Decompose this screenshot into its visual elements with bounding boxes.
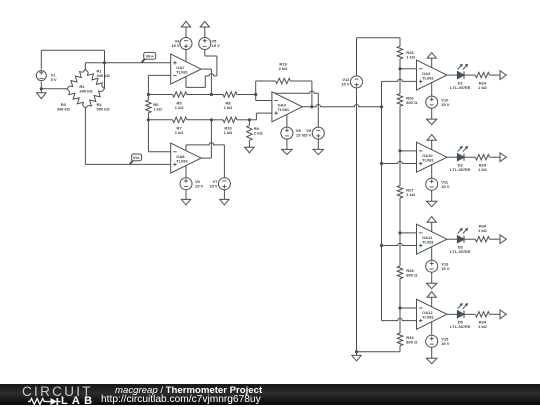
- node bus row3: [380, 244, 383, 247]
- wire bridge top stub: [84, 63, 86, 70]
- svg-text:1 kΩ: 1 kΩ: [224, 130, 234, 135]
- ground below V9: [317, 139, 319, 149]
- svg-text:1 kΩ: 1 kΩ: [478, 228, 488, 233]
- svg-text:800 Ω: 800 Ω: [406, 100, 418, 105]
- wire V12 bottom rail: [356, 88, 358, 352]
- ground below V15: [431, 347, 433, 358]
- svg-text:1 kΩ: 1 kΩ: [153, 106, 163, 111]
- resistor R3 340k bridge bottom-left arm: [67, 89, 70, 92]
- ground below R9: [245, 147, 254, 153]
- svg-text:2 kΩ: 2 kΩ: [254, 131, 264, 136]
- voltage source V12 15V: [351, 76, 363, 88]
- ground at bottom rail: [356, 352, 358, 356]
- resistor R1 340k bridge top-right arm: [85, 69, 88, 72]
- voltage source V6 15V: [180, 178, 192, 190]
- svg-text:2 kΩ: 2 kΩ: [279, 66, 289, 71]
- LED D5 LTL-307EE: [457, 311, 464, 318]
- node output to + bus: [380, 105, 383, 108]
- resistor R10 1k: [211, 119, 223, 121]
- svg-text:15 V: 15 V: [171, 43, 180, 48]
- wire V13 to OA11 pin: [431, 247, 433, 261]
- wire LED to R29: [464, 156, 475, 158]
- power arrow above V5: [200, 21, 209, 27]
- wire OA7 output down to R5/R8 row: [201, 68, 211, 70]
- svg-text:800 Ω: 800 Ω: [406, 339, 418, 344]
- svg-text:15 V: 15 V: [441, 184, 450, 189]
- resistor R2 340k bridge top-left arm: [67, 86, 70, 89]
- wire Vin+ to OA7 noninverting input: [105, 62, 171, 64]
- svg-text:800 Ω: 800 Ω: [406, 272, 418, 277]
- svg-text:15 V: 15 V: [212, 43, 221, 48]
- svg-text:1 kΩ: 1 kΩ: [406, 192, 416, 197]
- power arrow above OA11: [427, 217, 436, 223]
- wire OA9 output to bus: [302, 105, 381, 107]
- node bottom rail junction: [355, 350, 358, 353]
- op-amp OA9 TL081: [272, 92, 302, 122]
- wire ladder tap to OA12 - input: [400, 307, 417, 309]
- power arrow above V4: [181, 21, 190, 27]
- wire OA10 output to LED: [447, 156, 458, 158]
- ground below V8: [286, 139, 288, 149]
- svg-text:5 V: 5 V: [51, 77, 57, 82]
- svg-text:TL081: TL081: [422, 75, 434, 80]
- resistor R34 1k: [475, 312, 489, 317]
- ground below V10: [431, 108, 433, 119]
- svg-text:LTL-307EE: LTL-307EE: [450, 249, 471, 254]
- wire V6 to OA8 pin: [185, 166, 187, 178]
- voltage source V9 15V: [312, 127, 324, 139]
- voltage source V15 15V: [426, 335, 438, 347]
- voltage source V5 15V: [199, 38, 211, 50]
- svg-text:1 kΩ: 1 kΩ: [175, 105, 185, 110]
- op-amp OA10 TL081: [417, 142, 447, 172]
- node OA7 output junction: [210, 93, 213, 96]
- wire ladder tap to OA10 - input: [400, 150, 417, 152]
- node R19/output junction: [310, 105, 313, 108]
- resistor R7 1k: [148, 119, 172, 121]
- svg-text:15 V: 15 V: [441, 341, 450, 346]
- node ladder tap 1: [398, 67, 401, 70]
- wire OA3 output to LED: [447, 74, 458, 76]
- svg-text:15 V: 15 V: [303, 133, 312, 138]
- voltage source V10 15V: [426, 96, 438, 108]
- wire bridge bottom to OA8 noninverting input: [84, 108, 86, 164]
- ground below V6: [185, 190, 187, 200]
- wire V10 to OA3 pin: [431, 83, 433, 97]
- svg-text:340 kΩ: 340 kΩ: [97, 73, 111, 78]
- wire ladder tap to OA11 - input: [400, 232, 417, 234]
- node OA8 output junction: [210, 118, 213, 121]
- op-amp OA12 TL081: [417, 299, 447, 329]
- LED D2 LTL-307EE: [457, 154, 464, 161]
- svg-text:LTL-307EE: LTL-307EE: [450, 324, 471, 329]
- svg-text:1 kΩ: 1 kΩ: [478, 85, 488, 90]
- wire V1+ top to bridge right node: [40, 50, 42, 69]
- node ladder tap 4: [398, 306, 401, 309]
- svg-text:TL081: TL081: [422, 239, 434, 244]
- wire V9 to OA9 top pin: [317, 93, 319, 127]
- voltage source V4 15V: [180, 38, 192, 50]
- node R6 bottom junction: [147, 118, 150, 121]
- wire to OA8 inverting input: [147, 120, 149, 152]
- voltage source V11 15V: [426, 178, 438, 190]
- wire V11 to OA10 pin: [431, 165, 433, 179]
- svg-text:TL081: TL081: [176, 158, 188, 163]
- wire LED to R34: [464, 313, 475, 315]
- net flag row OA3: [500, 71, 506, 80]
- svg-text:340 kΩ: 340 kΩ: [57, 107, 71, 112]
- svg-text:15 V: 15 V: [195, 183, 204, 188]
- net flag Vin+: [144, 52, 156, 59]
- resistor R6 1k vertical: [147, 95, 149, 100]
- wire bus to OA11 + input: [382, 243, 417, 245]
- svg-text:15 V: 15 V: [441, 102, 450, 107]
- svg-text:1 kΩ: 1 kΩ: [224, 105, 234, 110]
- svg-text:1 kΩ: 1 kΩ: [478, 324, 488, 329]
- resistor R29 1k: [475, 155, 489, 160]
- svg-text:1 kΩ: 1 kΩ: [175, 130, 185, 135]
- wire V1- to bridge left node: [40, 82, 42, 89]
- svg-text:15 V: 15 V: [209, 183, 218, 188]
- svg-text:1 kΩ: 1 kΩ: [478, 167, 488, 172]
- svg-text:1 kΩ: 1 kΩ: [406, 55, 416, 60]
- wire bridge right node vertical: [104, 63, 106, 89]
- wire LED to R24: [464, 74, 475, 76]
- wire to OA9 noninverting input: [249, 119, 256, 121]
- resistor R24 1k: [475, 72, 489, 77]
- ground below V13: [431, 272, 433, 283]
- net flag Vin-: [132, 154, 142, 161]
- net flag row OA12: [500, 310, 506, 319]
- node V1- junction: [40, 87, 43, 90]
- svg-text:15 V: 15 V: [441, 266, 450, 271]
- power arrow above OA3: [427, 53, 436, 59]
- wire V12 top to ladder top: [356, 38, 358, 76]
- resistor R26 800 ladder: [399, 69, 401, 94]
- power arrow above OA12: [427, 292, 436, 298]
- power arrow above OA10: [427, 135, 436, 141]
- node bus row2: [380, 162, 383, 165]
- svg-text:TL081: TL081: [422, 157, 434, 162]
- node R8/R19 junction: [254, 93, 257, 96]
- wire OA8 output up to R7/R10 row: [201, 157, 211, 159]
- voltage source V8 15V: [281, 127, 293, 139]
- wire to OA9 inverting input: [255, 95, 257, 101]
- resistor R33 800 ladder: [399, 308, 401, 333]
- wire V5 to OA7 V- pin staircase: [204, 50, 206, 57]
- svg-text:340 kΩ: 340 kΩ: [79, 89, 93, 94]
- resistor R27 1k ladder: [399, 151, 401, 186]
- svg-text:TL081: TL081: [278, 107, 290, 112]
- ground below V7: [223, 190, 225, 200]
- LED D3 LTL-307EE: [457, 236, 464, 243]
- svg-text:TL081: TL081: [176, 69, 188, 74]
- wire R34 to flag: [490, 313, 501, 315]
- LED D1 LTL-307EE: [457, 72, 464, 79]
- wire bus to OA3 + input: [382, 79, 417, 81]
- wire ladder tap to OA3 - input: [400, 68, 417, 70]
- voltage source V1 5V: [36, 71, 46, 81]
- resistor R9 2k to ground: [248, 120, 250, 126]
- svg-text:TL081: TL081: [422, 315, 434, 320]
- wire bus to OA10 + input: [382, 161, 417, 163]
- wire measurement bus vertical: [381, 81, 383, 320]
- resistor R19 2k feedback: [255, 81, 257, 95]
- resistor R8 1k: [211, 94, 223, 96]
- wire bus to OA12 + input: [382, 318, 417, 320]
- wire OA11 output to LED: [447, 238, 458, 240]
- wire LED to R30: [464, 238, 475, 240]
- wire OA12 output to LED: [447, 313, 458, 315]
- node ladder tap 2: [398, 149, 401, 152]
- svg-text:LTL-307EE: LTL-307EE: [450, 167, 471, 172]
- wire R30 to flag: [490, 238, 501, 240]
- wire ladder bottom to rail: [399, 346, 401, 352]
- ground below V11: [431, 190, 433, 201]
- node R10/R9 junction: [248, 118, 251, 121]
- footer text: [115, 386, 262, 395]
- resistor R4 500k bridge bottom-right arm: [85, 105, 88, 108]
- node junction Vin+ net: [103, 61, 106, 64]
- op-amp OA11 TL081: [417, 224, 447, 254]
- net flag row OA10: [500, 153, 506, 162]
- wire OA7 inverting input feedback: [148, 74, 170, 76]
- wire V15 to OA12 pin: [431, 322, 433, 336]
- ground below V1: [40, 89, 42, 93]
- svg-text:LTL-307EE: LTL-307EE: [450, 85, 471, 90]
- svg-text:Vin+: Vin+: [145, 53, 154, 58]
- resistor R30 1k: [475, 237, 489, 242]
- resistor R25 1k ladder: [397, 46, 402, 59]
- svg-text:Vin-: Vin-: [133, 155, 141, 160]
- op-amp OA7 TL081: [171, 54, 201, 84]
- wire V4 to OA7 V+ pin: [185, 50, 187, 62]
- node R6 top junction: [147, 93, 150, 96]
- CircuitLab logo: [0, 384, 100, 405]
- wire V7 to OA8 top pin: [223, 145, 225, 178]
- voltage source V13 15V: [426, 260, 438, 272]
- wire R19 right leg to OA9 output: [311, 81, 313, 107]
- voltage source V7 15V: [218, 178, 230, 190]
- node ladder tap 3: [398, 231, 401, 234]
- wire V8 to OA9 pin: [286, 114, 288, 127]
- svg-text:15 V: 15 V: [341, 82, 350, 87]
- svg-text:500 kΩ: 500 kΩ: [97, 107, 111, 112]
- op-amp OA3 TL081: [417, 60, 447, 90]
- op-amp OA8 TL081: [171, 143, 201, 173]
- net flag row OA11: [500, 235, 506, 244]
- resistor R5 1k: [148, 94, 172, 96]
- resistor R28 800 ladder: [399, 233, 401, 266]
- wire R29 to flag: [490, 156, 501, 158]
- wire R24 to flag: [490, 74, 501, 76]
